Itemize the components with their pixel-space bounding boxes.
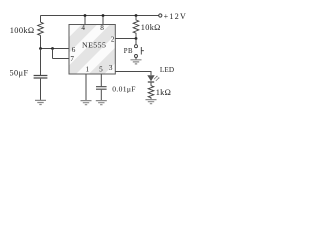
svg-text:8: 8 — [100, 24, 104, 32]
svg-text:7: 7 — [70, 55, 74, 63]
svg-text:LED: LED — [160, 66, 174, 74]
wire pin2 horizontal — [115, 38, 136, 40]
svg-text:3: 3 — [109, 64, 113, 72]
pushbutton PB top contact — [135, 45, 138, 48]
pushbutton PB bottom contact — [135, 55, 138, 58]
svg-text:5: 5 — [99, 65, 103, 73]
ground R3 — [146, 100, 157, 104]
LED D1 triangle — [147, 75, 154, 81]
capacitor C2 0.01uF — [96, 87, 107, 90]
svg-text:10kΩ: 10kΩ — [141, 23, 161, 32]
node dot pin2 — [135, 37, 138, 40]
wire LED to R3 — [150, 83, 152, 86]
wire pin4 to rail — [84, 16, 86, 25]
pushbutton PB actuator bar — [141, 47, 144, 55]
svg-text:1kΩ: 1kΩ — [156, 88, 171, 97]
node junction dot B — [51, 47, 54, 50]
resistor R3 1k — [148, 86, 154, 100]
ground pin1 — [81, 101, 92, 105]
wire pin2 node down to PB — [135, 39, 137, 45]
ground PB — [131, 60, 142, 64]
wire pin5 down to C2 — [100, 74, 102, 86]
LED emission arrows — [154, 76, 159, 81]
wire C1 bottom to ground — [40, 79, 42, 101]
wire pin1 to ground — [85, 74, 87, 100]
node dot R2 top rail — [135, 14, 138, 17]
svg-text:2: 2 — [111, 35, 115, 43]
svg-text:PB: PB — [124, 48, 133, 55]
node junction dot A — [39, 47, 42, 50]
wire pin8 to rail — [102, 16, 104, 25]
svg-text:6: 6 — [72, 46, 76, 54]
svg-text:50μF: 50μF — [9, 69, 28, 78]
ground C2 — [96, 101, 107, 105]
svg-text:+12V: +12V — [164, 12, 188, 21]
op-amp U1 NE555 box — [69, 25, 115, 75]
wire PB to ground — [135, 58, 137, 60]
capacitor C1 50uF — [34, 76, 48, 79]
wire resistor 100k bottom to node — [40, 35, 42, 48]
wire pin6 horizontal — [41, 48, 70, 50]
svg-text:1: 1 — [86, 65, 90, 73]
wire left drop from rail to R 100k — [40, 16, 42, 23]
resistor R2 10k — [133, 16, 139, 39]
svg-text:NE555: NE555 — [82, 41, 106, 50]
svg-text:0.01μF: 0.01μF — [112, 85, 136, 94]
wire pin7 horizontal — [53, 58, 70, 60]
LED D1 cathode bar — [148, 81, 154, 83]
node dot pin8 rail — [102, 14, 105, 17]
svg-text:4: 4 — [81, 24, 85, 32]
node dot pin4 rail — [84, 14, 87, 17]
resistor R1 100k — [38, 22, 44, 35]
wire pin7 jog vertical — [52, 49, 54, 59]
wire C2 to ground — [100, 90, 102, 101]
wire node A down to C1 — [40, 49, 42, 76]
wire top supply rail — [41, 15, 159, 17]
svg-text:100kΩ: 100kΩ — [10, 26, 35, 35]
ground C1 — [35, 100, 46, 104]
terminal +12V open circle — [159, 14, 162, 17]
wire pin3 horizontal — [115, 72, 151, 76]
